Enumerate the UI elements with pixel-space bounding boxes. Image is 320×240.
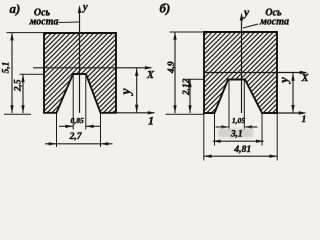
- svg-text:0,85: 0,85: [71, 116, 84, 125]
- svg-text:у: у: [242, 7, 250, 19]
- dimension 2,12 (right figure notch height): [182, 78, 205, 113]
- y axis (left figure): [78, 2, 88, 113]
- axis 1 (bottom base line, left figure): [116, 111, 156, 127]
- svg-text:X: X: [301, 73, 310, 84]
- svg-text:X: X: [146, 70, 155, 81]
- X axis (right figure): [204, 71, 310, 84]
- pier cross-section A (hatched block with trapezoidal notch): [44, 33, 116, 113]
- dimension 2,5 (left figure notch height): [14, 74, 44, 113]
- dimension 5,1 (left figure overall height): [2, 33, 45, 115]
- y axis (right figure): [240, 7, 250, 113]
- figure label a): [10, 1, 21, 16]
- svg-text:5,1: 5,1: [2, 62, 12, 74]
- svg-text:б): б): [160, 1, 171, 16]
- dimension y (right figure, centroid height): [277, 73, 295, 113]
- leader line from label to y-axis (left): [59, 21, 80, 24]
- svg-text:а): а): [10, 1, 21, 16]
- pier cross-section B (hatched block with trapezoidal notch): [204, 32, 277, 113]
- svg-text:моста: моста: [259, 17, 289, 28]
- svg-text:1: 1: [302, 115, 307, 125]
- svg-text:4,9: 4,9: [167, 61, 177, 74]
- svg-text:1,05: 1,05: [232, 116, 245, 125]
- svg-text:моста: моста: [28, 16, 58, 27]
- dimension y (left figure, centroid height): [118, 68, 138, 113]
- svg-text:4,81: 4,81: [233, 144, 251, 155]
- leader line from label to y-axis (right): [243, 24, 258, 28]
- svg-text:у: у: [118, 88, 133, 97]
- axis 1 (bottom base line, right figure): [277, 111, 307, 125]
- svg-text:2,5: 2,5: [14, 79, 24, 92]
- dimension 4,9 (right figure overall height): [166, 32, 205, 114]
- label Os' mosta (left): [28, 8, 58, 28]
- svg-text:3,1: 3,1: [230, 129, 243, 139]
- dimension 4,81 (right figure overall width): [204, 114, 277, 161]
- label Os' mosta (right): [259, 7, 289, 27]
- svg-text:у: у: [81, 2, 88, 13]
- figure label b): [160, 1, 171, 16]
- svg-text:1: 1: [148, 114, 154, 128]
- svg-text:2,7: 2,7: [69, 131, 83, 142]
- dimension 3,1 (right figure notch bottom width): [213, 113, 264, 146]
- svg-text:у: у: [277, 77, 291, 85]
- svg-text:2,12: 2,12: [182, 78, 192, 96]
- X axis (left figure): [33, 66, 155, 81]
- dimension 2,7 (left figure notch bottom width): [45, 113, 113, 147]
- dimension 1,05 (right figure notch top width): [216, 81, 258, 131]
- dimension 0,85 (left figure notch top width): [59, 75, 100, 130]
